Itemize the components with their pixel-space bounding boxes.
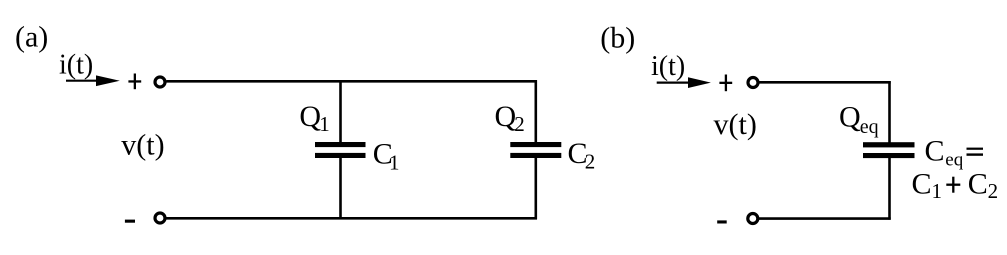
label Qeq xyxy=(839,100,879,138)
plus polarity (b) xyxy=(719,75,732,92)
svg-text:Q: Q xyxy=(495,100,517,133)
label C1 value xyxy=(373,138,400,175)
svg-text:eq: eq xyxy=(945,150,963,171)
wire C1 branch lower xyxy=(339,158,342,220)
equals sign xyxy=(967,148,984,156)
node terminal minus (a) xyxy=(155,213,165,223)
wire right branch upper (b) xyxy=(888,81,891,142)
node terminal minus (b) xyxy=(748,214,758,224)
wire right branch lower (a) xyxy=(534,158,537,220)
svg-text:1: 1 xyxy=(389,151,400,175)
label C2 second term xyxy=(968,168,998,203)
node terminal plus (b) xyxy=(748,78,758,88)
current arrow (a) xyxy=(66,75,120,86)
minus polarity (a) xyxy=(125,220,135,223)
wire right branch lower (b) xyxy=(888,158,891,220)
svg-text:2: 2 xyxy=(514,112,525,136)
wire right branch upper (a) xyxy=(534,80,537,142)
svg-text:v(t): v(t) xyxy=(714,108,757,141)
capacitor Ceq xyxy=(863,142,915,158)
minus polarity (b) xyxy=(717,220,727,223)
plus polarity (a) xyxy=(128,74,141,90)
svg-text:1: 1 xyxy=(319,112,330,136)
label C1 plus C2 equation line2 xyxy=(912,168,943,203)
svg-text:Q: Q xyxy=(299,100,321,133)
wire top (a) xyxy=(166,80,537,83)
wire bottom (a) xyxy=(166,217,537,220)
svg-text:(b): (b) xyxy=(600,22,635,55)
svg-text:Q: Q xyxy=(839,100,861,133)
label Ceq equation line1 xyxy=(925,135,964,171)
label Q1 xyxy=(299,100,329,136)
svg-text:eq: eq xyxy=(860,116,879,138)
svg-text:C: C xyxy=(925,135,945,168)
svg-text:C: C xyxy=(912,168,932,201)
label Q2 xyxy=(495,100,525,136)
svg-text:2: 2 xyxy=(585,150,596,174)
svg-text:v(t): v(t) xyxy=(121,129,164,162)
svg-text:1: 1 xyxy=(932,179,943,203)
capacitor C1 xyxy=(315,142,366,158)
wire bottom (b) xyxy=(759,217,891,220)
current arrow (b) xyxy=(657,77,711,88)
wire C1 branch upper xyxy=(339,80,342,142)
label C2 value xyxy=(568,137,596,174)
node terminal plus (a) xyxy=(155,77,165,87)
svg-text:i(t): i(t) xyxy=(59,50,93,81)
svg-text:2: 2 xyxy=(988,179,999,203)
capacitor C2 xyxy=(510,142,561,158)
svg-text:i(t): i(t) xyxy=(651,51,685,82)
svg-text:(a): (a) xyxy=(15,20,48,53)
svg-text:C: C xyxy=(968,168,988,201)
wire top (b) xyxy=(759,81,890,84)
plus sign equation xyxy=(946,177,960,193)
